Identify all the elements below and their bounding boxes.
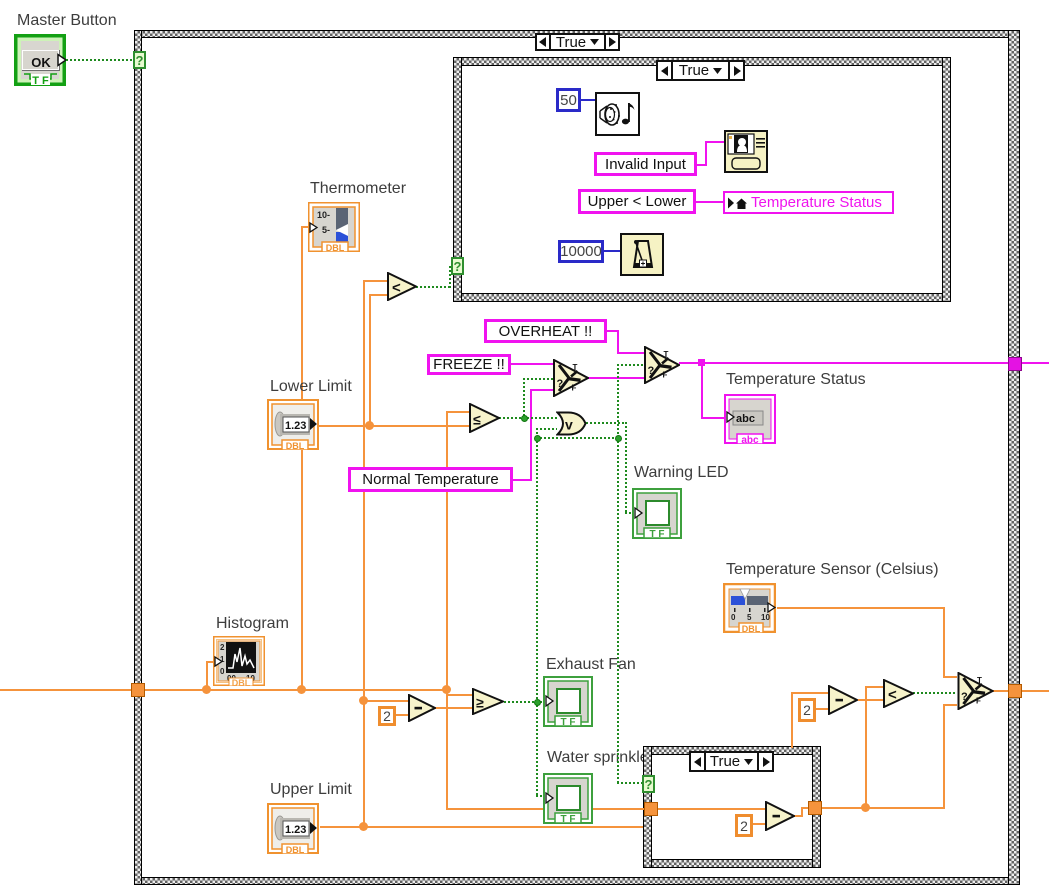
svg-text:5-: 5- (322, 225, 330, 235)
? terminal outer case (133, 51, 146, 69)
local variable Temperature Status (723, 191, 894, 214)
svg-text:T F: T F (561, 717, 576, 727)
bottom case structure border (643, 746, 821, 755)
wire: green dotted less-than output to inner case ? (416, 286, 452, 288)
svg-text:DBL: DBL (232, 678, 251, 686)
tunnel: bottom case left (644, 802, 658, 816)
numeric control Temperature Sensor (723, 583, 776, 633)
string FREEZE !! (427, 354, 511, 375)
wire: green dotted Master Button to outer ? (66, 59, 134, 61)
wire: Temperature Sensor output (777, 607, 945, 609)
wire: pink branch down to Temperature Status (701, 362, 703, 419)
wire: main orange input from left edge y=690 (0, 689, 447, 691)
tunnel: outer left orange (131, 683, 145, 697)
pink junction (698, 359, 705, 366)
node Greater Or Equal (472, 688, 504, 715)
outer case structure border (134, 30, 1019, 38)
wire: pink FREEZE to select1 t (511, 363, 553, 365)
wire: const 2c to subtract3 bottom input (753, 823, 766, 825)
wire: inside bottom case left tunnel to subtract3 (656, 808, 766, 810)
wire: blue 50 to beep (581, 99, 595, 101)
wire: case output branch up to less-than2 top input (865, 686, 867, 809)
svg-text:10-: 10- (317, 210, 330, 220)
svg-text:F: F (976, 697, 981, 706)
node Less Than (right) (883, 679, 914, 708)
node Subtract 2a (408, 694, 436, 722)
selector: bottom case True (689, 751, 774, 772)
wire: subtract3 output to right tunnel (794, 815, 803, 817)
svg-text:DBL: DBL (286, 845, 305, 854)
svg-text:≤: ≤ (473, 412, 481, 428)
label Thermometer (310, 180, 406, 197)
junction: case output up branch (861, 803, 870, 812)
wire: Lower Limit up to less-than bottom input (369, 294, 371, 427)
wire: Upper Limit vertical up to less-than top input (363, 280, 365, 828)
? terminal bottom case (642, 775, 655, 793)
boolean indicator Water sprinkler (543, 773, 593, 824)
node Subtract outer right (828, 685, 858, 715)
wire: select3 output to right tunnel and out (993, 690, 1049, 692)
junction: subtract2 top (359, 696, 368, 705)
? terminal inner case (451, 257, 464, 275)
svg-text:T F: T F (561, 814, 576, 824)
string OVERHEAT !! (484, 319, 607, 343)
wire: pink select2 output to right tunnel (679, 362, 1049, 364)
label Lower Limit (270, 378, 352, 395)
svg-text:?: ? (557, 378, 564, 390)
wire: subtract4 top input from case top border (791, 692, 793, 748)
node Select 3 (957, 672, 994, 710)
svg-text:v: v (565, 417, 573, 433)
junction: upper limit (359, 822, 368, 831)
wire: pink Normal Temperature to select1 f (513, 479, 531, 481)
node Wait (metronome) (620, 233, 664, 276)
svg-text:1.23: 1.23 (285, 824, 306, 836)
selector: outer case True (535, 33, 620, 51)
constant 2a (378, 706, 396, 726)
junction: histogram branch (202, 685, 211, 694)
tunnel: outer right pink (1008, 357, 1022, 371)
boolean indicator Warning LED (632, 488, 682, 539)
svg-text:?: ? (961, 691, 968, 703)
svg-text:≥: ≥ (476, 695, 484, 711)
wire: green vertical x=618 up to select2 s (617, 364, 619, 439)
tunnel: outer right orange (select3 out) (1008, 684, 1022, 698)
wire: green dotted less-equal output to junction (499, 417, 557, 419)
constant 2c (735, 814, 753, 837)
junction: green at 618,438 (615, 435, 622, 442)
wire: green horizontal 537-618 at y=438 (536, 437, 620, 439)
label Upper Limit (270, 781, 352, 798)
svg-text:T F: T F (32, 75, 49, 86)
node Select 1 (553, 359, 589, 397)
wire: const 2b to subtract4 bottom input (816, 708, 829, 710)
string Upper < Lower (578, 189, 696, 214)
svg-text:<: < (888, 687, 897, 704)
wire: branch up to less-equal top input (446, 411, 448, 690)
numeric control Lower Limit (267, 399, 319, 450)
wire: pink Upper < Lower to local variable (696, 201, 723, 203)
label Master Button (17, 12, 117, 29)
wire: pink Invalid Input to dialog icon (697, 164, 707, 166)
label Histogram (216, 615, 289, 632)
wire: Lower Limit output (319, 425, 470, 427)
node Or (556, 411, 587, 436)
wire: pink OVERHEAT to select2 t (607, 330, 619, 332)
wire: green greater-equal output to exhaust fan (504, 701, 546, 703)
svg-text:5: 5 (747, 613, 752, 622)
node Subtract in bottom case (765, 801, 795, 831)
wire: green OR output to Warning LED (586, 422, 627, 424)
string Invalid Input (594, 152, 697, 176)
constant 10000 (558, 240, 604, 263)
boolean indicator Exhaust Fan (543, 676, 593, 727)
constant 2b (798, 698, 816, 722)
svg-text:2: 2 (220, 643, 225, 652)
wire: Upper Limit output (320, 826, 643, 828)
wire: branch to Histogram (206, 661, 208, 690)
tunnel: bottom case right (808, 801, 822, 815)
svg-text:OK: OK (31, 55, 51, 70)
wire: green less-than2 output to select3 s (913, 692, 957, 694)
label Exhaust Fan (546, 656, 636, 673)
wire: subtract4 output to less-than2 bottom input (858, 699, 883, 701)
numeric control Upper Limit (267, 803, 319, 854)
string indicator Temperature Status (724, 394, 776, 444)
svg-text:?: ? (648, 365, 655, 377)
label Warning LED (634, 464, 729, 481)
selector: inner case True (656, 60, 745, 81)
svg-text:0: 0 (220, 667, 225, 676)
numeric indicator Histogram (213, 636, 265, 686)
junction: x=447 (442, 685, 451, 694)
svg-text:T: T (977, 676, 982, 685)
node One Button Dialog (724, 130, 768, 173)
svg-text:10: 10 (761, 613, 770, 622)
wire: step into greater-equal top input (446, 690, 448, 696)
svg-text:T: T (573, 363, 578, 372)
junction: lower limit (365, 421, 374, 430)
svg-text:1.23: 1.23 (285, 420, 306, 432)
svg-text:T F: T F (650, 529, 665, 539)
svg-text:abc: abc (736, 413, 755, 425)
constant 50 (556, 88, 581, 112)
label Temperature Sensor (Celsius) (726, 561, 939, 578)
junction: thermometer branch (297, 685, 306, 694)
node Select 2 (644, 346, 680, 384)
svg-text:T: T (664, 350, 669, 359)
wire: bottom case output to select3 f input (819, 807, 945, 809)
svg-text:DBL: DBL (326, 243, 345, 252)
junction: green at 537,438 (534, 435, 541, 442)
svg-text:DBL: DBL (742, 624, 761, 633)
wire: branch down to bottom case left tunnel (446, 690, 448, 810)
svg-text:abc: abc (741, 435, 759, 444)
junction: green at 524,418 (521, 415, 528, 422)
label Water sprinkler (547, 749, 654, 766)
node Less Or Equal (469, 403, 500, 433)
svg-text:F: F (572, 384, 577, 393)
node Beep.vi (595, 92, 640, 136)
node Less Than (top) (387, 272, 417, 301)
string Normal Temperature (348, 467, 513, 492)
junction: green at 537,702 (534, 699, 541, 706)
wire: green vertical x=537 (536, 437, 538, 703)
wire: Upper vertical to subtract2 top input (363, 700, 409, 702)
svg-text:F: F (663, 371, 668, 380)
boolean control Master Button (14, 34, 66, 86)
wire: branch up to Thermometer (301, 226, 303, 690)
wire: blue 10000 to metronome (604, 250, 620, 252)
wire: green vertical x=618 down to bottom case ? (617, 437, 619, 784)
label Temperature Status (726, 371, 866, 388)
wire: green junction up to select1 s (523, 378, 525, 419)
svg-text:<: < (392, 280, 401, 297)
wire: green x=537 down to water sprinkler (536, 701, 538, 797)
wire: subtract2 output to greater-equal bottom input (435, 707, 473, 709)
wire: green to OR bottom input (536, 428, 538, 438)
numeric indicator Thermometer (308, 202, 360, 252)
inner case structure border (top right) (453, 57, 951, 66)
svg-text:DBL: DBL (286, 441, 305, 450)
wire: pink select1 output to select2 f (588, 377, 644, 379)
wire: const 2a to subtract2 bottom input (396, 714, 409, 716)
svg-text:0: 0 (731, 613, 736, 622)
